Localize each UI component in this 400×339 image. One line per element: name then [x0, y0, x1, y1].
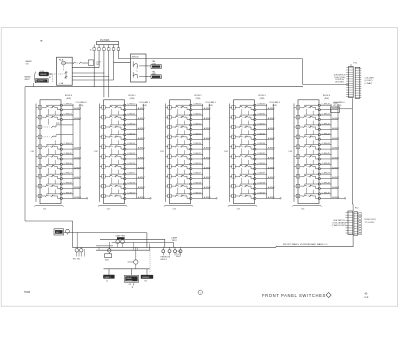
- wire bus A: [64, 232, 147, 234]
- svg-text:10: 10: [297, 196, 299, 198]
- svg-text:ON: ON: [26, 64, 29, 66]
- svg-text:(1: (1: [90, 50, 93, 52]
- bank 1 last row tail: [80, 198, 88, 199]
- svg-text:10: 10: [169, 196, 171, 198]
- svg-text:A-SW-7: A-SW-7: [204, 176, 212, 179]
- bank 2 switch row 1: [100, 104, 146, 115]
- svg-text:A-SW-6: A-SW-6: [138, 166, 146, 169]
- svg-text:LAMPS: LAMPS: [126, 279, 133, 282]
- wire relay out 2: [72, 72, 104, 74]
- bank 3 switch row 6: [166, 150, 212, 164]
- svg-text:A-SW-4: A-SW-4: [268, 147, 276, 150]
- svg-text:ROW 2: ROW 2: [194, 95, 202, 97]
- svg-text:(SW): (SW): [260, 98, 265, 100]
- svg-text:C-SW-09: C-SW-09: [64, 192, 73, 194]
- wire bus C drop: [172, 242, 175, 247]
- svg-text:C-SW-13: C-SW-13: [127, 133, 136, 135]
- bus link legs: [99, 242, 149, 250]
- bank 5 switch row 2: [294, 111, 340, 125]
- wire PL403 pin3 drop: [103, 52, 106, 97]
- wire PL403 pin6 drop: [117, 52, 119, 59]
- bank 1 switch row 7: [36, 160, 82, 174]
- terminal circle A: [66, 229, 70, 234]
- bank 3 switch row 9: [166, 180, 212, 194]
- svg-text:C-SW-19: C-SW-19: [127, 192, 136, 194]
- svg-text:(SW): (SW): [337, 105, 342, 107]
- svg-text:A-SW-8: A-SW-8: [74, 186, 82, 189]
- svg-text:A-SW-4: A-SW-4: [204, 147, 212, 150]
- svg-text:C-SW-27: C-SW-27: [193, 173, 202, 175]
- bank 5 column bus 2: [337, 104, 339, 199]
- wire top bus: [118, 58, 302, 60]
- svg-text:FRONT PANEL HYPERBOARD MARK 2-: FRONT PANEL HYPERBOARD MARK 2-1: [283, 243, 328, 246]
- svg-text:A-SW-4: A-SW-4: [74, 147, 82, 150]
- svg-text:40: 40: [365, 292, 368, 295]
- svg-text:9: 9: [40, 186, 41, 188]
- bank 4 column bus 2: [273, 104, 275, 199]
- svg-text:MAINS: MAINS: [40, 73, 47, 76]
- bank 4 last row tail: [274, 198, 282, 199]
- relay RLA: [57, 57, 73, 85]
- svg-text:12: 12: [106, 281, 108, 283]
- svg-text:CR: CR: [129, 284, 132, 286]
- bank 5 switch row 6: [294, 150, 340, 164]
- svg-text:C-SW-43: C-SW-43: [322, 133, 331, 135]
- svg-text:(SW): (SW): [324, 98, 329, 100]
- svg-text:A-SW-2: A-SW-2: [332, 127, 340, 130]
- bank 5 switch row 4: [294, 130, 340, 144]
- svg-text:C33: C33: [160, 151, 165, 153]
- wire right vertical bus: [351, 98, 354, 204]
- svg-text:PACK 2: PACK 2: [161, 258, 168, 261]
- bank 5 row header: [323, 95, 331, 100]
- bank 4 column header: [269, 102, 281, 107]
- svg-text:C-SW-25: C-SW-25: [193, 153, 202, 155]
- svg-text:9: 9: [298, 186, 299, 188]
- svg-text:A-SW-7: A-SW-7: [332, 176, 340, 179]
- svg-text:6: 6: [169, 156, 170, 158]
- svg-text:4: 4: [132, 287, 134, 289]
- wire left bus down: [24, 87, 26, 221]
- svg-text:10: 10: [233, 196, 235, 198]
- svg-text:C-SW-48: C-SW-48: [322, 183, 331, 185]
- svg-text:SUPPLY: SUPPLY: [38, 81, 46, 83]
- svg-text:A-SW-5: A-SW-5: [268, 156, 276, 159]
- connector PL1 column: [334, 63, 374, 99]
- svg-text:(SW): (SW): [196, 98, 201, 100]
- svg-text:8: 8: [40, 176, 41, 178]
- svg-text:C-SW-36: C-SW-36: [257, 163, 266, 165]
- svg-text:6: 6: [233, 156, 234, 158]
- svg-text:A-SW-3: A-SW-3: [332, 137, 340, 140]
- switch bank 2 outline: [104, 100, 125, 204]
- svg-text:A-SW-6: A-SW-6: [74, 166, 82, 169]
- svg-text:(SOCKET): (SOCKET): [335, 82, 344, 84]
- svg-text:C-SW-34: C-SW-34: [257, 143, 266, 145]
- svg-text:LAMP: LAMP: [333, 102, 339, 105]
- svg-text:A-SW-6: A-SW-6: [332, 166, 340, 169]
- bank 4 switch row 3: [230, 121, 276, 135]
- resistor pack: [161, 247, 183, 261]
- svg-text:A-SW-8: A-SW-8: [332, 186, 340, 189]
- svg-text:A-SW-2: A-SW-2: [138, 127, 146, 130]
- wire lower bus: [104, 268, 150, 270]
- svg-text:C-SW-47: C-SW-47: [322, 173, 331, 175]
- svg-text:3: 3: [233, 127, 234, 129]
- wire bus E: [96, 245, 113, 247]
- bank 5 switch row 9: [294, 180, 340, 194]
- svg-text:C-SW-29: C-SW-29: [193, 192, 202, 194]
- svg-text:6: 6: [298, 156, 299, 158]
- svg-text:A-SW-8: A-SW-8: [268, 186, 276, 189]
- wire PL403 pin5 drop: [112, 52, 115, 80]
- svg-text:COLUMN: COLUMN: [365, 77, 375, 79]
- bank 4 bottom label: [237, 209, 240, 211]
- svg-text:ROW 4: ROW 4: [323, 95, 331, 97]
- lamp LP1: [331, 102, 353, 113]
- svg-text:PL2: PL2: [355, 207, 360, 209]
- bank 4 cable bracket: [228, 205, 257, 206]
- svg-text:2: 2: [103, 117, 104, 119]
- svg-text:(SW): (SW): [142, 105, 147, 107]
- wire bus D: [96, 249, 150, 251]
- bank 2 cable C32: [94, 104, 100, 202]
- svg-text:C-SW-35: C-SW-35: [257, 153, 266, 155]
- svg-text:7: 7: [298, 166, 299, 168]
- svg-text:C-SW-08: C-SW-08: [64, 183, 73, 185]
- bank 3 switch row 10: [166, 190, 212, 200]
- label box KEY: [54, 229, 64, 235]
- svg-text:1: 1: [298, 107, 299, 109]
- wire PL403 pin2 drop: [98, 52, 100, 68]
- wire J104 to PL403: [114, 61, 131, 63]
- bank 3 last row tail: [210, 198, 218, 199]
- svg-text:C-SW-10: C-SW-10: [127, 104, 136, 106]
- bank 3 column bus 1: [202, 104, 204, 199]
- svg-text:5: 5: [40, 147, 41, 149]
- svg-text:(SW): (SW): [79, 105, 84, 107]
- svg-text:A-SW-3: A-SW-3: [138, 137, 146, 140]
- svg-text:C31: C31: [30, 151, 35, 153]
- wire bottom left bus: [25, 220, 73, 222]
- doc number TM43: [24, 291, 31, 294]
- svg-text:A-SW-4: A-SW-4: [332, 147, 340, 150]
- svg-text:PL1: PL1: [354, 63, 359, 65]
- svg-text:DIMMER: DIMMER: [142, 277, 150, 279]
- svg-text:5: 5: [103, 147, 104, 149]
- bank 5 switch row 10: [294, 190, 340, 200]
- mains input labels: [25, 60, 49, 83]
- bank 3 column header: [205, 102, 217, 107]
- bank 2 switch row 9: [100, 180, 146, 194]
- wire bus A drop: [146, 233, 149, 248]
- bank 5 last row tail: [338, 198, 346, 199]
- transistor TR4: [128, 247, 139, 269]
- svg-text:4-8B: 4-8B: [152, 74, 157, 76]
- hyperboard caption: [283, 243, 328, 246]
- wire bus C: [112, 241, 174, 243]
- svg-text:A-SW-0: A-SW-0: [268, 107, 276, 110]
- bank 1 column bus 2: [79, 104, 81, 199]
- svg-text:PL46: PL46: [40, 71, 44, 73]
- sheet number: [364, 292, 369, 299]
- svg-text:R4: R4: [145, 281, 147, 283]
- lamp test lamps: [116, 235, 127, 248]
- svg-text:C-SW-41: C-SW-41: [322, 114, 331, 116]
- wire dashed tap: [149, 247, 151, 272]
- svg-text:C-SW-38: C-SW-38: [257, 183, 266, 185]
- bank 4 row header: [258, 95, 266, 100]
- svg-text:(SW): (SW): [130, 98, 135, 100]
- svg-text:L1A: L1A: [59, 82, 63, 85]
- svg-text:(SW): (SW): [208, 105, 213, 107]
- svg-text:A-SW-7: A-SW-7: [138, 176, 146, 179]
- revision circle: [198, 290, 202, 294]
- svg-text:A-SW-0: A-SW-0: [332, 107, 340, 110]
- svg-text:RLB: RLB: [105, 259, 109, 261]
- svg-text:C34: C34: [224, 151, 229, 153]
- svg-text:1: 1: [103, 107, 104, 109]
- svg-text:C-SW-16: C-SW-16: [127, 163, 136, 165]
- bank 4 switch row 7: [230, 160, 276, 174]
- svg-text:SW104: SW104: [132, 56, 140, 58]
- svg-text:C35: C35: [288, 151, 293, 153]
- bank 1 bottom label: [43, 209, 46, 211]
- svg-text:C32: C32: [94, 151, 99, 153]
- bank 1 switch row 4: [36, 135, 73, 139]
- bank 5 switch row 7: [294, 160, 340, 174]
- svg-text:9: 9: [103, 186, 104, 188]
- svg-text:9: 9: [169, 186, 170, 188]
- svg-text:LAMP: LAMP: [172, 236, 178, 239]
- bank 3 column bus 2: [209, 104, 211, 199]
- bank 1 cable C31: [30, 104, 36, 202]
- bank 3 switch row 4: [166, 130, 212, 144]
- svg-text:C-SW-14: C-SW-14: [127, 143, 136, 145]
- bank 4 switch row 1: [230, 104, 276, 115]
- wire right drop: [302, 59, 304, 85]
- svg-text:A-SW-1: A-SW-1: [204, 117, 212, 120]
- svg-text:LAMP 1: LAMP 1: [105, 276, 111, 279]
- switch unit J104: [131, 54, 147, 82]
- bank 2 bottom label: [107, 209, 110, 211]
- svg-text:TR1 TR2: TR1 TR2: [73, 258, 81, 260]
- wire drop L2: [130, 268, 133, 275]
- bank 5 cable C35: [288, 104, 294, 202]
- bank 2 switch row 8: [100, 170, 146, 184]
- svg-text:A-SW-7: A-SW-7: [268, 176, 276, 179]
- svg-text:C-SW-05: C-SW-05: [64, 153, 73, 155]
- svg-text:A-SW-8: A-SW-8: [138, 186, 146, 189]
- bank 3 switch row 8: [166, 170, 212, 184]
- bank 2 switch row 10: [100, 190, 146, 200]
- wire relay out 3: [72, 76, 109, 78]
- wire mains riser: [33, 83, 35, 87]
- switch bank 1 outline: [40, 100, 61, 204]
- bank 5 column header: [334, 102, 346, 107]
- wire PL403 pin4 drop: [107, 52, 110, 97]
- bank 2 cable bracket: [98, 205, 127, 206]
- svg-text:☰: ☰: [40, 40, 42, 43]
- svg-text:C-SW-30: C-SW-30: [257, 104, 266, 106]
- svg-text:3: 3: [103, 127, 104, 129]
- bank 1 row header: [65, 95, 73, 100]
- svg-text:A-SW-5: A-SW-5: [332, 156, 340, 159]
- bank 3 cable C33: [160, 104, 166, 202]
- svg-text:3: 3: [40, 127, 41, 129]
- bank 3 switch row 2: [166, 111, 212, 125]
- bank 3 switch row 1: [166, 104, 212, 115]
- svg-text:A-SW-3: A-SW-3: [204, 137, 212, 140]
- bank 1 switch row 10: [36, 190, 82, 200]
- svg-text:C-SW-32: C-SW-32: [257, 123, 266, 125]
- svg-text:4: 4: [298, 137, 299, 139]
- switch bank 3 outline: [170, 100, 191, 204]
- svg-text:C-SW-17: C-SW-17: [127, 173, 136, 175]
- svg-text:C34: C34: [237, 209, 240, 211]
- bank 3 bottom label: [173, 209, 176, 211]
- svg-text:1: 1: [233, 107, 234, 109]
- bank 1 switch row 9: [36, 180, 82, 194]
- svg-text:A-SW-5: A-SW-5: [204, 156, 212, 159]
- svg-text:FRONT PANEL SWITCHES: FRONT PANEL SWITCHES: [262, 293, 326, 298]
- svg-text:c: c: [200, 292, 201, 294]
- wire PL403 pin1 drop: [93, 52, 96, 87]
- svg-text:(LOGIC): (LOGIC): [365, 80, 373, 82]
- bank 3 switch row 5: [166, 140, 212, 154]
- svg-text:(7 WAY SOCKET): (7 WAY SOCKET): [332, 224, 347, 227]
- svg-text:5: 5: [169, 147, 170, 149]
- svg-text:C-SW-37: C-SW-37: [257, 173, 266, 175]
- bank 5 cable bracket: [293, 205, 322, 206]
- svg-text:C-SW-44: C-SW-44: [322, 143, 331, 145]
- svg-text:C-SW-31: C-SW-31: [257, 114, 266, 116]
- svg-text:TEST: TEST: [172, 240, 178, 242]
- svg-text:C-SW-15: C-SW-15: [127, 153, 136, 155]
- svg-text:S1: S1: [49, 77, 51, 79]
- bank 5 column bus 1: [330, 104, 332, 199]
- wire drop TR4: [134, 267, 137, 270]
- svg-text:5: 5: [233, 147, 234, 149]
- bank 2 switch row 3: [100, 121, 146, 135]
- bank 3 row header: [194, 95, 202, 100]
- svg-text:C-SW-22: C-SW-22: [193, 123, 202, 125]
- svg-text:5: 5: [298, 147, 299, 149]
- svg-text:1: 1: [169, 107, 170, 109]
- svg-text:10: 10: [39, 196, 41, 198]
- bank 2 column header: [139, 102, 151, 107]
- svg-text:1: 1: [40, 107, 41, 109]
- svg-text:A-SW-0: A-SW-0: [138, 107, 146, 110]
- wire common bus: [25, 85, 303, 88]
- svg-text:ROW (OUT): ROW (OUT): [365, 219, 377, 221]
- svg-text:10: 10: [103, 196, 105, 198]
- svg-text:C-SW-12: C-SW-12: [127, 123, 136, 125]
- svg-text:TM43: TM43: [24, 291, 31, 294]
- bank 1 switch row 3: [36, 123, 73, 129]
- svg-text:A-SW-3: A-SW-3: [268, 137, 276, 140]
- lamp test header: [172, 236, 178, 242]
- svg-text:8: 8: [298, 176, 299, 178]
- bank 2 switch row 7: [100, 160, 146, 174]
- svg-text:4: 4: [40, 137, 41, 139]
- svg-text:(7 WAY): (7 WAY): [365, 82, 373, 85]
- wire to column connector: [303, 84, 349, 86]
- wire relay out 1: [72, 67, 99, 69]
- title FRONT PANEL SWITCHES: [262, 292, 331, 298]
- svg-text:INPUT: INPUT: [25, 79, 32, 81]
- bank 3 cable bracket: [164, 205, 193, 206]
- wire TR1 riser: [76, 232, 79, 248]
- svg-text:C-SW-39: C-SW-39: [257, 192, 266, 194]
- label DIMMER: [141, 275, 153, 283]
- svg-text:C33: C33: [173, 209, 176, 211]
- bank 1 column bus 1: [72, 104, 74, 199]
- svg-text:C-SW-11: C-SW-11: [127, 114, 136, 116]
- svg-text:7: 7: [103, 166, 104, 168]
- bank 1 switch row 1: [36, 104, 82, 115]
- svg-text:C-SW-06: C-SW-06: [64, 163, 73, 165]
- svg-text:A-SW-2: A-SW-2: [204, 127, 212, 130]
- svg-text:C-SW-42: C-SW-42: [322, 123, 331, 125]
- bank 2 switch row 5: [100, 140, 146, 154]
- bank 2 column bus 2: [143, 104, 145, 199]
- transistors TR1 TR2: [73, 247, 85, 260]
- bank 1 switch row 5: [36, 140, 82, 154]
- svg-text:8: 8: [103, 176, 104, 178]
- svg-text:7: 7: [40, 166, 41, 168]
- svg-text:ROW 3: ROW 3: [258, 95, 266, 97]
- svg-text:A-SW-1: A-SW-1: [332, 117, 340, 120]
- terminal label TB4B: [151, 71, 161, 78]
- wire relay out 4: [72, 79, 113, 81]
- svg-text:A-SW-1: A-SW-1: [268, 117, 276, 120]
- svg-text:C-SW-23: C-SW-23: [193, 133, 202, 135]
- svg-text:C-SW-49: C-SW-49: [322, 192, 331, 194]
- wire bus B drop: [163, 239, 166, 247]
- wire J104 out A: [144, 65, 152, 67]
- bank 4 switch row 5: [230, 140, 276, 154]
- svg-text:A-SW-5: A-SW-5: [74, 156, 82, 159]
- svg-text:ROW 0: ROW 0: [65, 95, 73, 97]
- bank 4 switch row 6: [230, 150, 276, 164]
- bank 4 cable C34: [224, 104, 230, 202]
- svg-text:C-SW-40: C-SW-40: [322, 104, 331, 106]
- revision mark a: [40, 40, 42, 43]
- svg-text:8: 8: [169, 176, 170, 178]
- switch bank 5 outline: [298, 100, 319, 204]
- svg-text:LAMP TEST: LAMP TEST: [116, 235, 127, 238]
- svg-text:4: 4: [169, 137, 170, 139]
- svg-text:C-SW-21: C-SW-21: [193, 114, 202, 116]
- bank 4 switch row 4: [230, 130, 276, 144]
- svg-text:(SW): (SW): [272, 105, 277, 107]
- bank 1 cable bracket: [35, 205, 64, 206]
- bank 2 switch row 4: [100, 130, 146, 144]
- svg-text:A-SW-7: A-SW-7: [74, 176, 82, 179]
- svg-text:TVR: TVR: [96, 64, 101, 66]
- svg-text:C-SW-20: C-SW-20: [193, 104, 202, 106]
- svg-text:2: 2: [233, 117, 234, 119]
- bank 3 switch row 3: [166, 121, 212, 135]
- svg-text:C-SW-33: C-SW-33: [257, 133, 266, 135]
- terminal label TB4A: [151, 61, 161, 68]
- svg-text:C31: C31: [43, 209, 46, 211]
- switch bank 4 outline: [234, 100, 255, 204]
- svg-text:C-SW-01: C-SW-01: [64, 114, 73, 116]
- wire bus B: [100, 238, 165, 240]
- bank 4 column bus 1: [266, 104, 268, 199]
